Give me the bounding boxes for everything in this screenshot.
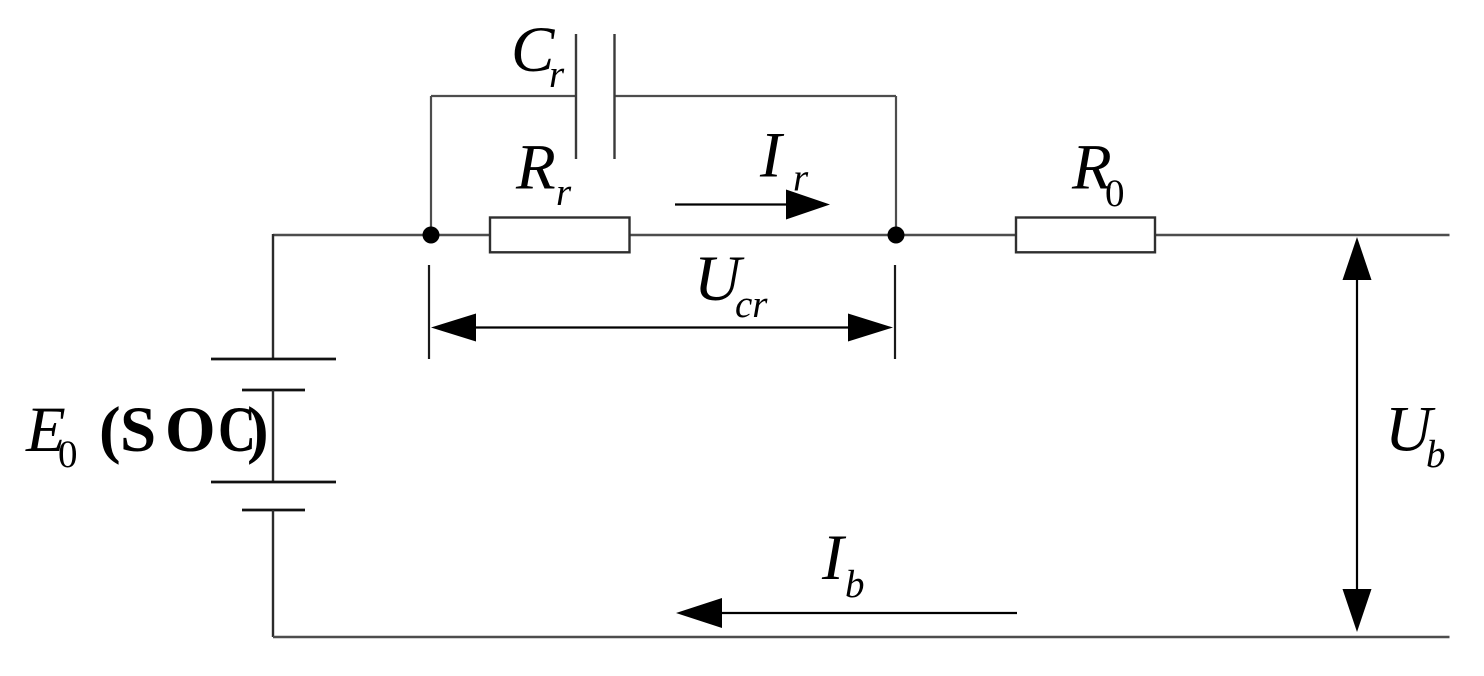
capacitor Cr right plate <box>613 34 615 159</box>
svg-text:b: b <box>845 563 865 606</box>
label R0 <box>1071 132 1125 216</box>
current arrow Ir (shaft) <box>675 203 790 205</box>
current arrow Ib (head, pointing left) <box>676 598 722 628</box>
svg-text:0: 0 <box>58 433 78 476</box>
wire: battery mid vertical (between cells) <box>272 390 274 482</box>
svg-text:0: 0 <box>1105 172 1125 215</box>
svg-text:cr: cr <box>735 283 768 326</box>
battery E0 long plate 3 <box>211 481 336 484</box>
label Ub <box>1385 394 1446 477</box>
battery E0 short plate 4 <box>242 509 305 512</box>
wire: RC branch top wire left of capacitor <box>431 95 576 97</box>
label Cr <box>511 14 565 96</box>
node A (left junction dot) <box>423 227 440 244</box>
svg-text:(: ( <box>99 394 121 466</box>
label Rr <box>515 132 572 215</box>
Ucr measurement left tick <box>428 265 430 359</box>
Ub arrowhead bottom <box>1343 589 1372 632</box>
wire: RC branch left vertical (node A up to top wire) <box>430 96 432 235</box>
wire: main horizontal right segment (R0 box to right end) <box>1155 234 1450 236</box>
svg-text:r: r <box>793 157 809 200</box>
current arrow Ib (shaft) <box>717 612 1017 614</box>
current arrow Ir (head) <box>786 190 830 220</box>
svg-text:b: b <box>1426 433 1446 476</box>
battery E0 short plate 2 <box>242 389 305 392</box>
svg-text:I: I <box>759 120 785 192</box>
label Ucr <box>694 243 768 326</box>
svg-text:): ) <box>247 394 269 466</box>
resistor R0 body <box>1016 218 1155 253</box>
svg-text:O: O <box>165 394 216 466</box>
wire: main horizontal middle segment (Rr box to R0 box) <box>630 234 1017 236</box>
Ucr double arrow shaft <box>470 326 854 328</box>
wire: RC branch right vertical (top wire down to node B) <box>895 96 897 235</box>
wire: main horizontal left segment (battery top corner to Rr box) <box>273 234 490 236</box>
label Ir <box>759 120 809 200</box>
Ub arrowhead top <box>1343 237 1372 280</box>
capacitor Cr left plate <box>575 34 577 159</box>
svg-text:r: r <box>549 53 565 96</box>
Ucr measurement right tick <box>894 265 896 359</box>
wire: left vertical from main wire down to battery <box>272 234 274 359</box>
node B (right junction dot) <box>888 227 905 244</box>
label Ib <box>821 522 865 606</box>
battery E0 long plate 1 <box>211 358 336 361</box>
svg-text:r: r <box>556 171 572 214</box>
svg-text:I: I <box>821 522 847 594</box>
Ucr arrowhead left <box>431 314 476 342</box>
wire: battery bottom vertical down to bottom wire <box>272 510 274 637</box>
wire: RC branch top wire right of capacitor <box>615 95 897 97</box>
label E0 (SOC) <box>25 394 269 476</box>
svg-text:S: S <box>120 394 156 466</box>
wire: bottom horizontal wire <box>273 636 1450 639</box>
svg-text:R: R <box>515 132 556 204</box>
resistor Rr body <box>490 218 630 253</box>
Ub double arrow shaft <box>1356 275 1358 594</box>
Ucr arrowhead right <box>848 314 893 342</box>
